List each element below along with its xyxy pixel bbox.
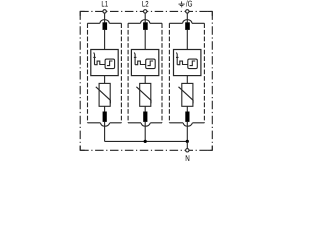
thermal disconnector bottom (black) cell 2: [143, 112, 147, 122]
enclosure dash-dot border: [80, 11, 212, 150]
module 1 dashed side left: [87, 23, 89, 123]
wire disconnector to spark gap box: [104, 30, 106, 50]
triggered spark gap box cell 1: [91, 50, 118, 76]
thermal disconnector top (black) cell 1: [103, 22, 108, 30]
trigger unit box: [105, 59, 115, 69]
thermal disconnector bottom (black) cell 1: [103, 112, 107, 122]
module 2 bottom edge with socket contact: [128, 122, 162, 124]
ground symbol in top label: [179, 1, 185, 6]
wire bus to N terminal: [186, 141, 188, 148]
wire to N bus: [104, 122, 106, 141]
module 3 top edge with plug contact arc: [169, 22, 204, 24]
wire L2 terminal to disconnector: [144, 13, 146, 22]
trigger unit box: [188, 59, 198, 69]
module 1 top edge with plug contact arc: [88, 22, 122, 24]
varistor cell 1: [99, 83, 110, 106]
module 1 bottom edge with socket contact: [88, 122, 122, 124]
N bus wire: [105, 140, 188, 142]
wire spark gap to varistor: [186, 76, 188, 84]
trigger step symbol: [190, 61, 196, 66]
wire spark gap to varistor: [104, 76, 106, 84]
spark gap electrode: [93, 53, 96, 65]
module 3 dashed side left: [168, 23, 170, 123]
triggered spark gap box cell 3: [174, 50, 201, 76]
module 1 dashed side right: [120, 23, 122, 123]
thermal disconnector top (black) cell 3: [185, 22, 190, 30]
wire disconnector to spark gap box: [144, 30, 146, 50]
module 2 dashed side right: [161, 23, 163, 123]
svg-text:N: N: [185, 153, 190, 163]
wire to N bus: [186, 122, 188, 141]
trigger step symbol: [107, 61, 113, 66]
wire G terminal to disconnector: [186, 13, 188, 22]
spark gap electrode: [175, 53, 178, 65]
wire L1 terminal to disconnector: [104, 13, 106, 22]
terminal G: [186, 10, 189, 13]
module 3 dashed side right: [203, 23, 205, 123]
spark gap meander to trigger: [95, 61, 106, 65]
wire varistor to bottom disconnector: [186, 106, 188, 112]
wire to N bus: [144, 122, 146, 141]
svg-text:L1: L1: [101, 0, 108, 9]
trigger unit box: [146, 59, 156, 69]
svg-text:L2: L2: [142, 0, 149, 9]
module 2 dashed side left: [127, 23, 129, 123]
cell 1: surge protection path L1-N: [88, 13, 122, 141]
border corner joints: [80, 11, 212, 150]
wire spark gap to varistor: [144, 76, 146, 84]
terminal L2: [144, 10, 147, 13]
cell 3: surge protection path N-PE/G: [169, 13, 204, 141]
module 2 top edge with plug contact arc: [128, 22, 162, 24]
junction cell 3 to bus: [186, 140, 189, 143]
spark gap electrode: [133, 53, 136, 65]
cell 2: surge protection path L2-N: [128, 13, 162, 141]
varistor cell 3: [182, 83, 193, 106]
spark gap meander to trigger: [135, 61, 146, 65]
spark gap meander to trigger: [177, 61, 188, 65]
svg-text:/G: /G: [186, 0, 193, 9]
terminal L1: [103, 10, 106, 13]
module 3 bottom edge with socket contact: [169, 122, 204, 124]
wire disconnector to spark gap box: [186, 30, 188, 50]
wire varistor to bottom disconnector: [144, 106, 146, 112]
thermal disconnector bottom (black) cell 3: [185, 112, 189, 122]
wire varistor to bottom disconnector: [104, 106, 106, 112]
thermal disconnector top (black) cell 2: [143, 22, 148, 30]
triggered spark gap box cell 2: [131, 50, 158, 76]
varistor cell 2: [140, 83, 151, 106]
junction cell 2 to bus: [144, 140, 147, 143]
terminal N: [186, 149, 189, 152]
trigger step symbol: [148, 61, 154, 66]
